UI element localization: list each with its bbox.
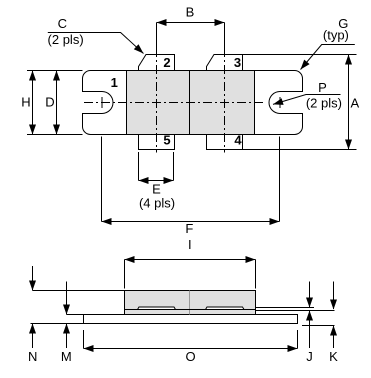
right flange with mounting slot (255, 71, 303, 135)
lead 5 (bottom left) (139, 135, 175, 150)
pin number 1 (111, 75, 118, 90)
svg-text:H: H (21, 95, 30, 110)
svg-text:A: A (350, 96, 359, 111)
dimension M (61, 282, 84, 365)
vertical centerline through leads 2 and 5 (156, 48, 158, 153)
svg-text:4: 4 (234, 133, 242, 148)
svg-text:F: F (185, 221, 193, 236)
side view flange (84, 315, 298, 324)
svg-text:K: K (329, 349, 338, 364)
pin number 5 (163, 133, 170, 148)
svg-text:(2 pls): (2 pls) (48, 32, 84, 47)
leader G (typ) (301, 16, 355, 70)
svg-text:2: 2 (163, 55, 170, 70)
side view cap body (125, 291, 256, 315)
svg-text:(4 pls): (4 pls) (139, 196, 175, 211)
dimension E (4 pls) (139, 152, 176, 211)
dimension B (157, 5, 225, 50)
left hole center mark (101, 97, 103, 108)
svg-text:N: N (28, 349, 37, 364)
svg-text:E: E (152, 182, 161, 197)
svg-text:P: P (318, 80, 327, 95)
svg-text:(typ): (typ) (323, 28, 349, 43)
dimension F (102, 137, 280, 237)
side view lead tab (256, 308, 335, 311)
horizontal centerline (84, 102, 266, 104)
package body (ceramic cap, top view) (127, 71, 255, 135)
leader P (2 pls) (273, 80, 342, 110)
svg-text:B: B (186, 5, 195, 20)
svg-text:J: J (306, 349, 313, 364)
leader C (2 pls) (48, 16, 144, 54)
lead 3 (top right, chamfered) (207, 55, 243, 71)
dimension N (28, 266, 124, 364)
pin number 2 (163, 55, 170, 70)
svg-text:(2 pls): (2 pls) (306, 95, 342, 110)
dimension A (243, 55, 359, 150)
dimension D (45, 71, 60, 135)
pin number 3 (234, 55, 241, 70)
dimension I (125, 237, 256, 289)
svg-text:1: 1 (111, 75, 118, 90)
svg-text:D: D (45, 95, 54, 110)
svg-text:3: 3 (234, 55, 241, 70)
svg-text:I: I (188, 237, 192, 252)
dimension J (306, 282, 313, 365)
side view lead seat left (138, 307, 176, 310)
lead 2 (top left, chamfered) (139, 55, 175, 71)
svg-text:M: M (61, 349, 72, 364)
pin number 4 (234, 133, 242, 148)
lead 4 (bottom right) (207, 135, 243, 150)
dimension K (302, 282, 338, 365)
right hole center mark (279, 97, 281, 108)
svg-text:C: C (58, 16, 67, 31)
side view lead seat right (206, 307, 245, 310)
left flange with mounting slot (83, 71, 127, 135)
vertical centerline through leads 3 and 4 (224, 48, 226, 153)
svg-text:5: 5 (163, 133, 170, 148)
dimension H (21, 71, 82, 135)
svg-text:O: O (186, 349, 196, 364)
dimension O (84, 330, 298, 364)
